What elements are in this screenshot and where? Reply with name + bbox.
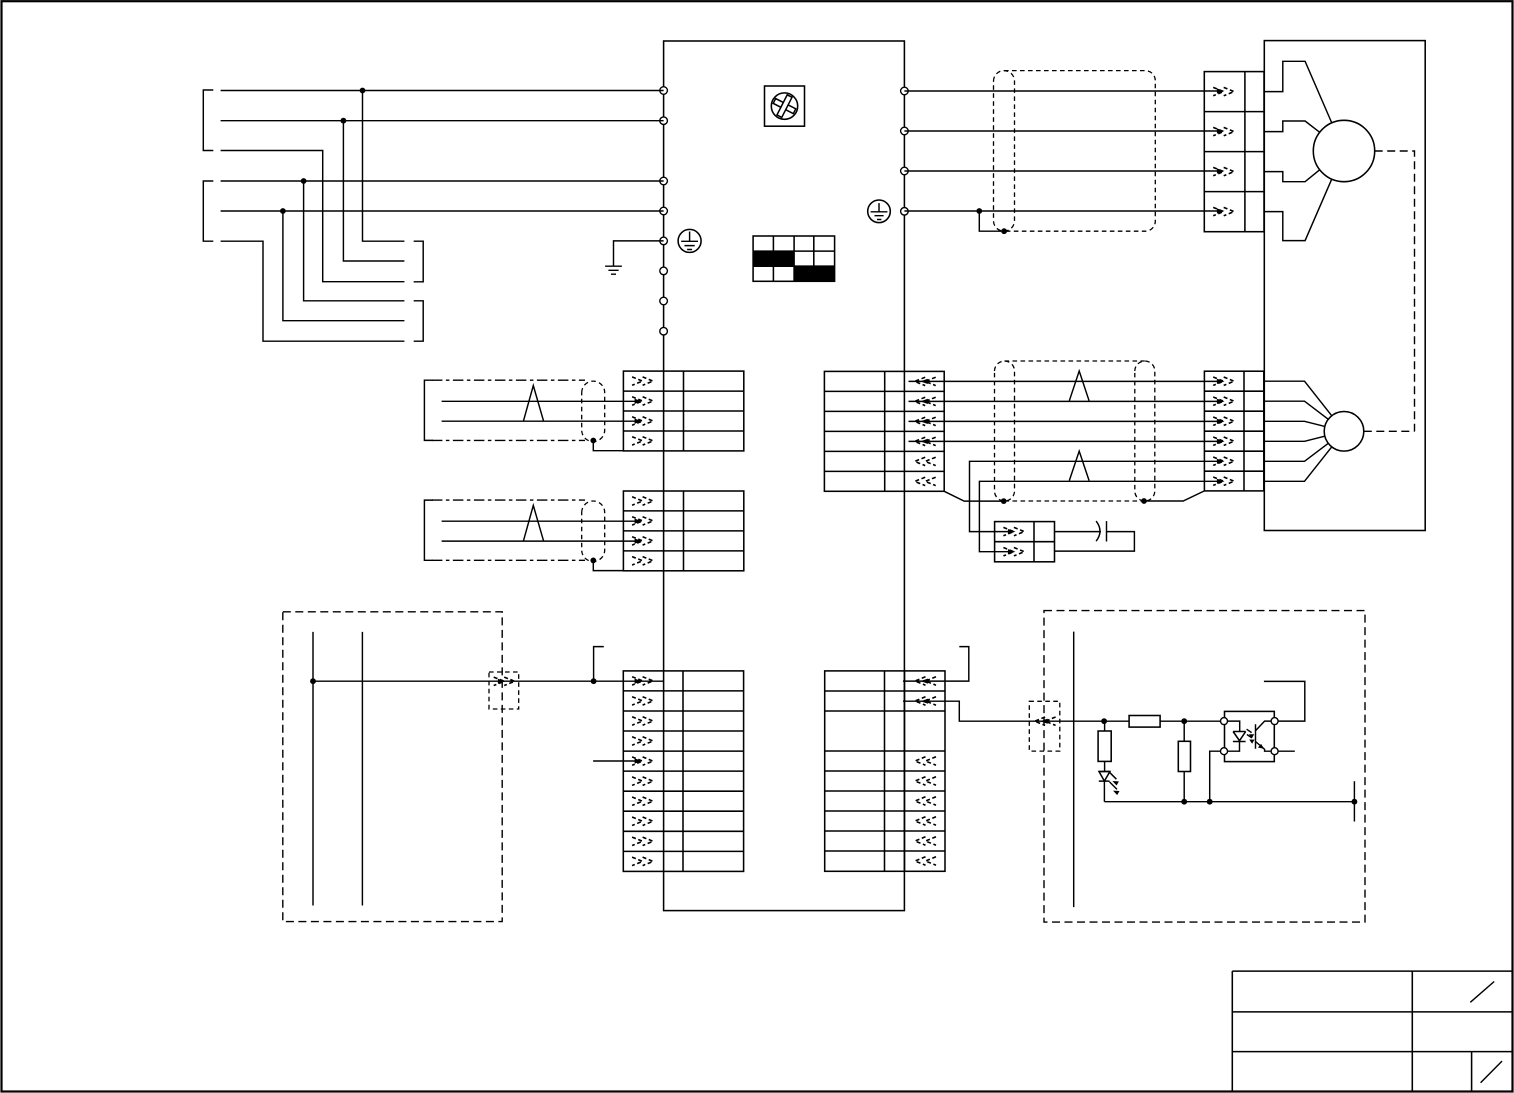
pulse input 2 terminal row 4 arrow — [632, 557, 653, 565]
pulse input 2 terminal row 3 arrow — [632, 537, 653, 545]
encoder lead 6 — [1264, 447, 1332, 481]
optocoupler U1 — [1221, 711, 1279, 761]
drive-side shield drain — [944, 491, 1004, 501]
digital output row arrow — [915, 697, 936, 705]
digital output row arrow — [915, 797, 936, 805]
feedback terminal row 5 arrow — [915, 457, 936, 465]
controller (PLC) dashed box — [283, 612, 502, 922]
drive input terminals L1 L2 L3 N P etc — [660, 87, 668, 95]
feedback terminal row 3 arrow — [915, 417, 936, 425]
feedback terminal row 1 arrow — [915, 377, 936, 385]
motor block enclosure — [1264, 41, 1425, 531]
motor M — [1313, 120, 1374, 181]
controller bus line 2 — [361, 632, 363, 906]
motor lead PE — [1264, 179, 1331, 240]
opto pin 2 — [1221, 748, 1228, 755]
pulse input 2 terminal row 1 arrow — [632, 497, 653, 505]
opto internal LED — [1228, 721, 1246, 751]
wire t branch — [221, 241, 405, 341]
motor power connector — [1204, 72, 1264, 232]
motor connector pin 4 arrow — [1213, 207, 1234, 215]
user load dashed box — [1044, 611, 1365, 923]
encoder connector pin 1 arrow — [1213, 377, 1234, 385]
encoder cable twisted pair 1 — [1069, 371, 1089, 401]
feedback terminal row 4 arrow — [915, 437, 936, 445]
output row 2 wire to load circuit — [903, 701, 1104, 721]
encoder wire 3 — [909, 420, 1220, 422]
protective earth symbol (output side) — [868, 200, 891, 223]
power cable shield drain — [979, 211, 1004, 231]
return terminal tick — [1353, 781, 1355, 821]
battery return wire — [1055, 532, 1135, 552]
digital input row 3 arrow — [632, 717, 653, 725]
pulse input 1 source bracket — [424, 380, 433, 440]
encoder connector pin 6 arrow — [1213, 477, 1234, 485]
pulse input 2 signal wire - — [442, 540, 639, 542]
pulse input 1 signal wire + — [442, 400, 639, 402]
encoder lead 2 — [1264, 401, 1329, 419]
feedback terminal row 6 arrow — [915, 477, 936, 485]
spare input wire — [593, 760, 638, 762]
pulse input 2 shield drain wire — [593, 560, 623, 570]
encoder cable shield left capsule — [995, 361, 1015, 501]
encoder cable shield outline — [1005, 361, 1145, 501]
keypad / display panel — [753, 236, 835, 281]
cooling fan symbol — [765, 86, 805, 126]
encoder connector pin 5 arrow — [1213, 457, 1234, 465]
digital input row 10 arrow — [632, 857, 653, 866]
cable marker arrow — [494, 677, 515, 685]
encoder wire 2 — [909, 400, 1220, 402]
pulse input 2 source bracket — [424, 500, 433, 560]
encoder wire 4 — [909, 440, 1220, 442]
resistor R1 (series) — [1104, 720, 1220, 722]
encoder lead 3 — [1264, 421, 1325, 426]
control output wire — [313, 680, 664, 682]
pulse input 1 terminal row 1 arrow — [632, 377, 653, 385]
opto return wire — [1210, 751, 1221, 802]
control power bracket — [203, 181, 213, 241]
motor-encoder shaft (dashed) — [1364, 151, 1415, 431]
tap wire from s — [283, 211, 405, 321]
wire r to drive — [221, 180, 664, 182]
digital output row arrow — [915, 857, 936, 865]
pulse input 2 shield capsule — [582, 501, 605, 561]
tap wire from L2 — [343, 121, 404, 261]
encoder battery wire - — [979, 481, 1219, 551]
digital input row 9 arrow — [632, 837, 653, 845]
encoder battery wire + — [970, 461, 1220, 531]
opto phototransistor — [1256, 721, 1272, 751]
digital input row 2 arrow — [632, 697, 653, 705]
digital output terminal block — [825, 671, 945, 871]
user circuit bus line — [1073, 632, 1075, 908]
motor wire 1 — [904, 90, 1219, 92]
digital output row arrow — [915, 677, 936, 685]
digital output row arrow — [915, 817, 936, 825]
pulse input 2 signal wire + — [442, 520, 639, 522]
pulse input 1 terminal block — [623, 371, 743, 451]
encoder E — [1324, 412, 1364, 452]
pulse input 1 shielded cable outline — [432, 380, 585, 440]
motor wire 3 — [904, 170, 1219, 172]
pulse input 1 terminal row 3 arrow — [632, 417, 653, 425]
cable marker square (input) — [489, 672, 519, 709]
pulse input 1 twisted pair symbol — [524, 386, 544, 421]
aux output bracket A — [414, 241, 424, 282]
digital input row 6 arrow — [632, 777, 653, 786]
earth ground symbol with wire from terminal — [605, 241, 664, 274]
digital input terminal block — [623, 671, 743, 872]
encoder lead 5 — [1264, 443, 1329, 461]
encoder connector pin 3 arrow — [1213, 417, 1234, 425]
digital output row arrow — [915, 837, 936, 845]
node: load input — [1101, 718, 1107, 724]
drive output terminals U V W PE — [901, 87, 909, 95]
encoder-side shield drain — [1144, 491, 1204, 501]
cable marker square (output) — [1029, 701, 1060, 751]
wire L2 to drive — [221, 120, 664, 122]
bottom return wire — [1104, 801, 1354, 803]
pulse input 1 shield drain wire — [593, 441, 623, 451]
motor connector pin 1 arrow — [1213, 87, 1234, 95]
opto pin 1 — [1221, 718, 1228, 725]
encoder lead 4 — [1264, 436, 1325, 441]
pulse input 2 twisted pair symbol — [524, 505, 544, 540]
digital output row arrow — [915, 777, 936, 785]
opto pin 3 — [1271, 748, 1278, 755]
encoder wire 1 — [909, 380, 1220, 382]
motor lead U — [1264, 61, 1331, 122]
aux output bracket B — [414, 301, 424, 341]
opto pin 4 — [1271, 718, 1278, 725]
resistor R2 (LED branch) — [1104, 721, 1106, 731]
digital input row 1 arrow — [632, 677, 653, 685]
pulse input 1 terminal row 2 arrow — [632, 397, 653, 405]
digital input row 7 arrow — [632, 797, 653, 805]
digital input row 5 arrow — [632, 757, 653, 765]
mains input bracket (3-phase source) — [203, 90, 213, 151]
digital output row arrow — [915, 757, 936, 765]
backup battery BAT1 — [1096, 521, 1100, 541]
opto emitter stub — [1278, 750, 1295, 752]
motor wire 2 — [904, 130, 1219, 132]
digital input row 8 arrow — [632, 817, 653, 826]
encoder connector pin 2 arrow — [1213, 397, 1234, 405]
encoder cable shield right capsule — [1135, 361, 1155, 501]
signature slash 1 — [1470, 982, 1494, 1003]
output row 1 wire + flag — [903, 647, 969, 682]
battery connector pin 2 arrow — [1003, 548, 1024, 556]
node: opto anode — [1181, 718, 1187, 724]
PE wire shield junction — [976, 208, 982, 214]
pulse input 2 terminal row 2 arrow — [632, 517, 653, 525]
encoder cable twisted pair 2 — [1069, 451, 1089, 481]
external supply wire (opto collector) — [1264, 681, 1305, 721]
wire L3 branch — [221, 151, 405, 282]
pulse input 2 terminal block — [623, 491, 743, 571]
servo drive main block — [664, 41, 905, 911]
resistor R3 (shunt) — [1183, 721, 1185, 802]
cable marker arrow — [1035, 717, 1056, 725]
encoder lead 1 — [1264, 381, 1332, 416]
motor lead V — [1264, 121, 1319, 132]
pulse input 1 terminal row 4 arrow — [632, 437, 653, 445]
encoder feedback terminal block (drive side) — [824, 371, 944, 491]
motor wire 4 — [904, 210, 1219, 212]
signature slash 2 — [1481, 1061, 1502, 1083]
motor connector pin 2 arrow — [1213, 127, 1234, 135]
feedback terminal row 2 arrow — [915, 397, 936, 405]
motor connector pin 3 arrow — [1213, 167, 1234, 175]
wire L1 to drive — [221, 90, 664, 92]
protective earth symbol (input side) — [678, 229, 701, 252]
indicator LED — [1099, 772, 1120, 802]
opto light arrows — [1247, 729, 1252, 738]
controller bus line 1 — [312, 632, 314, 906]
tap wire from L1 — [363, 91, 405, 242]
wire to battery — [1055, 531, 1102, 533]
tap wire from r — [304, 181, 405, 301]
connector flag (input side) — [594, 647, 604, 682]
battery connector pin 1 arrow — [1003, 527, 1024, 535]
motor lead W — [1264, 170, 1319, 182]
battery connector block — [995, 522, 1055, 562]
pulse input 1 shield capsule — [582, 381, 605, 441]
encoder connector pin 4 arrow — [1213, 437, 1234, 445]
pulse input 2 shielded cable outline — [432, 500, 585, 560]
digital input row 4 arrow — [632, 737, 653, 745]
pulse input 1 signal wire - — [442, 420, 639, 422]
title block — [1232, 971, 1512, 1091]
encoder connector block — [1204, 371, 1263, 491]
motor power cable shield — [994, 71, 1015, 232]
wire s to drive — [221, 210, 664, 212]
